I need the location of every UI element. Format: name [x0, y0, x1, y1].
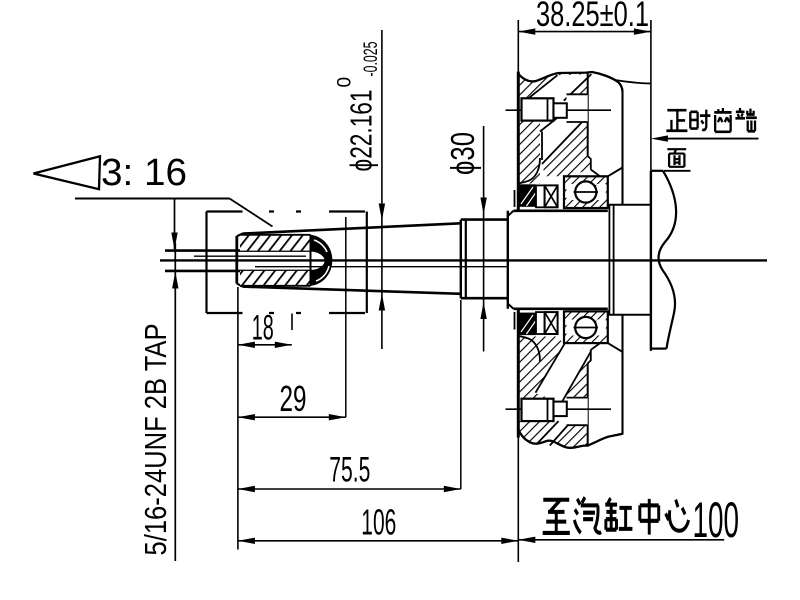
crankcase bottom flange hatch below bolt: [518, 421, 587, 448]
crankcase right wall bottom: [621, 315, 623, 435]
crank bore verticals behind web: [608, 206, 610, 315]
centerline main axis: [160, 259, 767, 261]
oil seal bottom: [519, 313, 536, 336]
shoulder chamfer top: [508, 211, 514, 216]
taper symbol triangle: [34, 156, 101, 189]
journal top edge: [461, 218, 508, 221]
wall edge Db bottom: [562, 351, 592, 402]
hole band bottom edge: [240, 285, 311, 287]
bearing seat shoulder right bottom: [608, 343, 623, 352]
tip chamfer top: [237, 234, 243, 237]
tapped hole hatch band top: [240, 235, 311, 251]
break wave line: [659, 171, 677, 349]
svg-text:100: 100: [693, 492, 740, 548]
svg-text:29: 29: [280, 378, 307, 419]
crankcase top flange hatch: [518, 73, 587, 98]
extension line from shaft tip: [237, 287, 239, 550]
note text: zheng shi chi duan (timing gear end): [666, 108, 756, 132]
dimension 38.25±0.1: [518, 0, 651, 35]
auxiliary line below axis: [255, 266, 507, 268]
phantom rectangle (mounted hub outline): [207, 212, 367, 314]
bolt top head: [522, 98, 554, 120]
bearing seat shoulder left bottom: [591, 343, 600, 350]
dimension phi30 leader line: [480, 126, 486, 352]
dimension phi22.161 leader line: [379, 30, 385, 349]
bolt bottom shank: [554, 402, 567, 417]
seal lip protrusion bottom: [514, 312, 516, 330]
web stub top edge: [651, 170, 663, 172]
seal spacer ring bottom: [536, 312, 545, 334]
svg-text:0: 0: [335, 77, 356, 88]
svg-text:5/16-24UNF 2B TAP: 5/16-24UNF 2B TAP: [138, 324, 173, 556]
tap leader arrow: [172, 272, 178, 289]
wall edge D2: [542, 120, 585, 165]
text: zhi qi gang zhong xin 100 (to cylinder center 100): [543, 497, 689, 534]
dimension 18: [238, 309, 292, 349]
crank bore top line: [608, 204, 651, 206]
svg-text:ϕ22.161: ϕ22.161: [344, 90, 379, 172]
extension line for 29: [345, 217, 347, 417]
cast channel white top: [526, 74, 592, 101]
bolt hole foot: [588, 156, 591, 170]
bolt hole notch top: [567, 94, 588, 122]
phi22.161 tolerance label rotated: [335, 42, 383, 172]
journal bottom edge: [461, 297, 508, 300]
crankcase top outer contour: [518, 72, 622, 92]
bottom wall hatch: [518, 337, 591, 399]
crankcase right wall top: [621, 92, 623, 205]
underline under mian: [664, 170, 691, 172]
seal housing lip bottom: [518, 336, 540, 361]
taper bottom edge: [243, 287, 461, 294]
crankcase bottom outer contour: [518, 430, 622, 448]
bolt hole end line bottom: [587, 363, 589, 446]
dimension to cylinder center 100: [518, 537, 724, 543]
shaft tip face: [235, 236, 238, 284]
ball bearing bottom: [564, 311, 608, 343]
bearing seat shoulder right: [608, 168, 623, 177]
channel edge lines top: [526, 75, 558, 101]
tap label leader line: [174, 243, 176, 561]
seal housing lip: [518, 158, 540, 183]
tip chamfer bottom: [237, 283, 243, 286]
extension line for 75.5: [460, 300, 462, 489]
thread end line: [310, 235, 312, 286]
bolt bottom head: [522, 399, 554, 421]
taper underline: [75, 198, 230, 200]
wall edge Da bottom: [536, 341, 567, 392]
bolt hole end line top: [587, 73, 589, 156]
bolt hole notch bottom: [567, 398, 588, 426]
phi30 label rotated: [444, 132, 481, 175]
svg-text:38.25±0.1: 38.25±0.1: [536, 0, 649, 34]
contour extension to timing line: [615, 80, 651, 84]
flange strip below bolt hatch: [518, 121, 540, 184]
tap minor dia upper leader with down arrow: [174, 199, 176, 250]
extension line face top: [517, 20, 519, 72]
svg-text:ϕ30: ϕ30: [444, 132, 481, 175]
svg-text:106: 106: [361, 502, 396, 543]
thread minor bottom line extended left: [165, 270, 311, 273]
taper leader to surface: [230, 199, 273, 227]
seal journal bottom edge: [514, 307, 608, 310]
extension stub for 18: [291, 314, 293, 331]
dimension 29: [238, 378, 346, 420]
cast channel white bottom: [536, 421, 573, 446]
thread minor top line extended left: [165, 249, 311, 252]
ball bearing top: [564, 176, 608, 208]
wall edge vertical: [541, 132, 543, 161]
svg-text:18: 18: [252, 309, 274, 348]
drill point inner arc: [311, 251, 326, 271]
seal lip protrusion top: [514, 190, 516, 207]
drill point crescent: [311, 235, 333, 286]
tapped hole hatch band bottom: [240, 271, 311, 286]
note text: mian (face): [667, 149, 686, 167]
crank web face (timing gear end face): [650, 171, 652, 351]
shoulder chamfer bottom: [508, 304, 514, 309]
seal journal top edge: [514, 210, 608, 213]
dimension 75.5: [238, 451, 461, 493]
seal spacer ring top: [536, 185, 545, 207]
svg-text:-0.025: -0.025: [361, 42, 382, 77]
shoulder step face: [507, 211, 509, 309]
5/16-24UNF 2B TAP label rotated: [138, 324, 173, 556]
taper top edge: [243, 223, 461, 233]
bolt top centerline: [506, 109, 612, 111]
shaft step rings at taper end: [460, 220, 462, 299]
cast channel white bottom wall: [535, 341, 591, 402]
oil seal top: [519, 184, 536, 207]
channel edge lines bottom: [537, 421, 559, 444]
leader for timing gear end face note: [663, 138, 759, 140]
bearing cage box bottom: [545, 312, 558, 334]
wall edge D1: [540, 111, 567, 132]
hole band top edge: [240, 234, 311, 236]
svg-text:75.5: 75.5: [329, 451, 370, 490]
thread pitch line upper: [194, 255, 306, 257]
bolt top shank: [554, 103, 567, 118]
dimension 106: [238, 502, 518, 545]
bolt bottom centerline: [506, 408, 612, 410]
bearing cage box top: [545, 185, 558, 207]
bolt hole foot bottom: [588, 350, 591, 364]
web stub bottom edge: [651, 348, 667, 350]
crankcase PTO face line: [517, 72, 520, 211]
wall hatch below bolt hole: [542, 120, 591, 176]
svg-text:3: 16: 3: 16: [101, 152, 187, 194]
extension line timing face top: [650, 20, 652, 171]
bearing seat shoulder left: [591, 170, 600, 177]
extension line face bottom: [517, 438, 519, 562]
crank bore bottom line: [608, 314, 651, 316]
